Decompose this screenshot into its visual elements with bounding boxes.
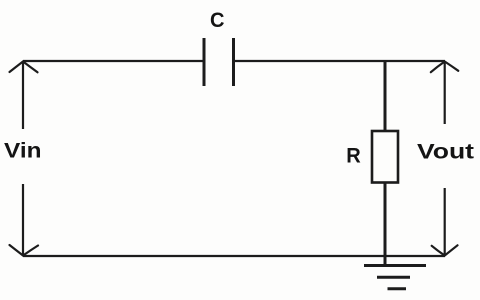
wire resistor branch upper (top wire to resistor) — [384, 61, 387, 131]
Vin measurement line lower segment — [22, 184, 24, 255]
wire resistor branch lower (resistor through bottom wire to ground) — [384, 183, 387, 266]
ground bar 1 — [364, 264, 426, 267]
capacitor C right plate — [232, 38, 235, 86]
Vin arrowhead up — [10, 62, 38, 73]
svg-text:Vout: Vout — [417, 139, 474, 163]
Vin measurement line upper segment — [22, 62, 24, 129]
svg-text:R: R — [346, 144, 361, 168]
wire bottom segment (Vin bottom node to Vout bottom node) — [23, 255, 445, 257]
svg-text:C: C — [210, 8, 225, 32]
wire top-right segment (capacitor to Vout top node) — [235, 60, 446, 62]
wire top-left segment (Vin top node to capacitor) — [23, 60, 203, 62]
Vout arrowhead up — [431, 62, 459, 73]
capacitor C left plate — [203, 38, 206, 86]
ground bar 2 — [377, 276, 410, 279]
Vout arrowhead down — [432, 245, 458, 255]
resistor R body — [372, 131, 398, 183]
Vout measurement line upper segment — [444, 62, 446, 124]
Vin arrowhead down — [10, 245, 39, 256]
ground bar 3 — [388, 287, 407, 290]
svg-text:Vin: Vin — [4, 138, 42, 162]
Vout measurement line lower segment — [444, 188, 446, 255]
